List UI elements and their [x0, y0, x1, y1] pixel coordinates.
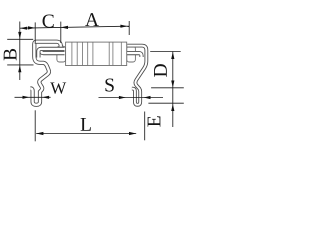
- wire: left lead axial arm into cap: [38, 49, 64, 58]
- B top ext: [7, 38, 33, 40]
- label B: [4, 49, 17, 60]
- S left arrow (right): [119, 96, 126, 99]
- D top ext: [150, 51, 181, 53]
- D top arrow (up): [171, 52, 174, 59]
- E bottom arrow (up): [171, 104, 174, 111]
- W left arrow (right): [23, 96, 30, 99]
- C right arrow: [28, 26, 35, 29]
- W right arrow (left): [42, 96, 49, 99]
- B top arrow (down): [18, 32, 21, 39]
- dimension lines: [7, 21, 184, 141]
- wire: right lead axial arm from body: [123, 53, 142, 57]
- C left arrow: [20, 27, 27, 30]
- D/E dim vertical: [172, 52, 174, 128]
- label W: [50, 82, 66, 93]
- body cylinder: [66, 42, 127, 65]
- A left arrow: [61, 26, 68, 29]
- S right arrow (left): [144, 96, 151, 99]
- label L: [81, 118, 91, 131]
- body left end cap: [57, 46, 66, 62]
- B bottom arrow (up): [18, 65, 21, 72]
- body right end cap: [127, 46, 136, 62]
- L left arrow (left): [36, 132, 43, 135]
- body stripes: [72, 42, 121, 65]
- L right arrow (right): [129, 132, 136, 135]
- tick x=129.2 (A right ext): [128, 21, 130, 35]
- E line2: [148, 102, 183, 104]
- B bottom ext: [7, 64, 33, 66]
- tick x=35.2 (C right ext): [34, 22, 36, 43]
- tick x=60.8 (A left ext): [60, 22, 62, 43]
- E line1: [151, 87, 184, 89]
- label D: [154, 64, 167, 77]
- label E: [148, 116, 161, 126]
- S dim line: [99, 97, 164, 99]
- top dim line C/A: [20, 26, 129, 28]
- L dim line: [36, 133, 136, 135]
- wire: left lead inner arm (lower, into cap): [41, 50, 64, 53]
- L right ext: [144, 112, 146, 141]
- label A: [85, 13, 99, 26]
- D bottom / E top arrow (down): [171, 81, 174, 88]
- L left ext: [34, 110, 36, 141]
- wire: left lead top run with left descent, lower arm, zigzag, foot: [30, 42, 60, 105]
- A right arrow: [120, 25, 127, 28]
- wire: right lead top run, descent, kink and foot: [127, 46, 146, 105]
- label S: [105, 78, 113, 91]
- label C: [43, 14, 54, 27]
- B dim vertical: [19, 22, 21, 81]
- arrowheads: [18, 25, 174, 136]
- W dim line: [15, 96, 51, 98]
